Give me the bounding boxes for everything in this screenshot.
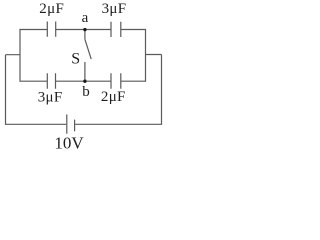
svg-text:S: S xyxy=(71,51,80,68)
svg-text:a: a xyxy=(82,10,89,26)
svg-text:b: b xyxy=(82,84,90,100)
svg-text:3μF: 3μF xyxy=(102,1,127,17)
svg-text:2μF: 2μF xyxy=(101,89,126,105)
svg-text:10V: 10V xyxy=(54,134,84,151)
svg-text:3μF: 3μF xyxy=(38,89,63,105)
svg-text:2μF: 2μF xyxy=(39,1,64,17)
